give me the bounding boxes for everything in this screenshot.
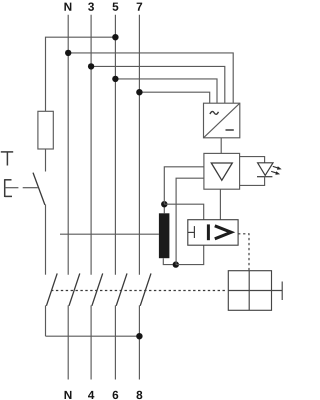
current transformer secondary winding: [159, 213, 170, 258]
wire pole 8 lower: [138, 305, 140, 379]
wire secondary bottom to level detector: [176, 245, 204, 264]
wire test branch bottom to line 8: [46, 335, 140, 337]
amplifier U2: [204, 153, 240, 189]
current transformer core line: [60, 233, 159, 235]
terminal label 7 top: [137, 3, 143, 11]
wire tap 7 to rectifier: [139, 92, 209, 103]
wire pole 4 lower: [90, 305, 92, 379]
wire tap N to rectifier: [68, 53, 233, 103]
switch contact pole 5-6: [116, 273, 127, 305]
terminal label N top: [64, 3, 71, 11]
wire test branch top: [46, 37, 116, 111]
trip relay K1: [228, 271, 282, 311]
wire rectifier to amplifier: [220, 138, 222, 154]
wire secondary top to level detector: [164, 204, 203, 220]
wire pole 7 upper: [138, 15, 140, 275]
node tap 5 rectifier: [112, 76, 118, 82]
wire pole 5 upper: [114, 15, 116, 275]
dashed trip signal wire: [238, 234, 249, 271]
resistor R test: [38, 111, 53, 149]
wire secondary top to amplifier input 1: [164, 167, 204, 204]
LED loop return wire: [240, 177, 265, 186]
node tap N: [65, 50, 71, 56]
level detector I> glyph: [208, 224, 231, 240]
terminal label N bottom: [65, 391, 72, 399]
wire amplifier to level detector: [219, 189, 221, 220]
wire secondary bottom to amplifier input 2: [176, 178, 204, 264]
wire tap 3 to rectifier: [91, 66, 225, 103]
terminal label 4 bottom: [88, 391, 94, 399]
switch contact pole 7-8: [140, 273, 151, 305]
wire secondary top stem: [163, 204, 165, 213]
node tap 7: [136, 89, 142, 95]
trip relay armature bar: [281, 282, 283, 301]
wire pole N upper: [67, 15, 69, 275]
level detector reference input symbol: [188, 226, 195, 238]
LED D1: [257, 163, 273, 177]
wire test contact down: [45, 305, 47, 336]
wire tap 5 to rectifier: [115, 79, 217, 103]
wire pole 6 lower: [114, 305, 116, 379]
rectifier power supply U1: [204, 103, 240, 138]
level detector I> box: [188, 220, 238, 246]
wire pole N lower: [67, 305, 69, 379]
label T test button: [1, 152, 13, 166]
switch contact test pole: [46, 273, 57, 305]
terminal label 8 bottom: [136, 391, 142, 399]
wire test button to test contact: [45, 205, 47, 275]
switch contact pole 3-4: [92, 273, 103, 305]
mechanical linkage dashed line: [51, 290, 227, 292]
switch contact pole N: [69, 273, 80, 305]
push-button actuator symbol: [5, 179, 12, 197]
LED emission arrows: [271, 166, 282, 174]
mechanical link push-button: [5, 187, 38, 189]
terminal label 3 top: [88, 2, 94, 10]
test button contact: [33, 173, 45, 205]
wire pole 3 upper: [90, 15, 92, 275]
node secondary top: [161, 201, 167, 207]
node secondary bottom: [173, 261, 179, 267]
node tap 5 test branch: [112, 34, 118, 40]
node tap 3: [88, 63, 94, 69]
node test branch line 8: [136, 333, 142, 339]
wire resistor to test button: [45, 149, 47, 172]
terminal label 6 bottom: [113, 391, 119, 399]
terminal label 5 top: [112, 3, 118, 11]
wire secondary bottom stem: [163, 258, 172, 264]
LED indicator loop wire: [240, 157, 265, 163]
